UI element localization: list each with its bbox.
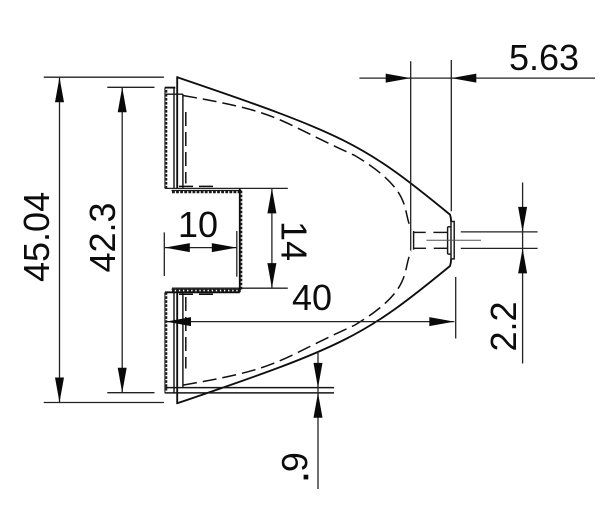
dim 5.63 extension line left [410,61,412,250]
dim 40 line [166,321,454,323]
hidden bore dashed vertical upper [185,112,187,184]
svg-text:5.63: 5.63 [509,37,579,78]
dim 10 extension line left [163,232,165,276]
tip flange vertical [447,227,449,254]
dim 40 extension line right [455,277,457,339]
inner wall bottom horizontal + extension for .6 dim [166,387,335,389]
dim 42.3 extension line top [107,86,154,88]
svg-text:2.2: 2.2 [483,301,524,351]
shoulder lip top edge [165,87,176,89]
dim 45.04 extension line bottom [44,402,164,404]
shoulder lip inner vertical lower [173,292,175,393]
shoulder lip left face lower (double line) [164,292,166,393]
dim 42.3 extension line bottom [107,392,154,394]
svg-text:42.3: 42.3 [82,202,123,272]
nose cone outer profile bottom curve [177,259,451,403]
svg-text:45.04: 45.04 [16,192,57,282]
dim 45.04 line [59,77,61,402]
slot top edge line outer [165,187,288,189]
dim 45.04 extension line top [44,76,164,78]
slot bottom edge line outer [165,291,240,293]
shoulder lip inner vertical upper [173,88,175,189]
svg-text:40: 40 [292,277,332,318]
slot top edge inner double [172,190,242,192]
dim 5.63 line [359,77,595,79]
dim 2.2 extension lines [461,231,538,233]
inner wall top horizontal [166,93,184,95]
base face upper segment [176,76,178,188]
nose cone outer profile top curve [177,77,451,221]
svg-text:14: 14 [274,221,315,261]
dim .6 line [317,353,319,489]
tip centerline [427,239,482,241]
slot right wall vertical [239,188,241,292]
slot right wall inner vertical [240,191,242,290]
hidden bore dashed vertical lower [185,297,187,369]
shoulder lip bottom edge + extension for .6 dim [165,392,334,394]
inner bore solid vertical upper [182,94,184,188]
dim 42.3 line [121,87,123,392]
svg-text:10: 10 [178,204,218,245]
dim 5.63 extension line right [450,60,452,211]
tip cap rectangle [451,222,454,259]
dim 14 line [271,188,273,288]
slot bottom hidden dashed [179,293,218,295]
dim 10 extension line right [236,231,238,277]
slot bottom edge inner double [172,290,241,292]
dim 2.2 line [522,183,524,364]
dim 10 line [165,247,237,249]
base face lower segment [176,292,178,404]
svg-text:6: 6 [274,452,315,472]
tip channel walls [414,231,426,233]
slot top hidden dashed [179,185,218,187]
tip flange caps [448,226,451,228]
tip internal face [413,231,415,250]
hidden inner surface dashed curve bottom [183,251,412,385]
inner bore solid vertical lower [182,292,184,387]
shoulder lip left face upper (double line) [164,88,166,189]
hidden inner surface dashed curve top [183,96,412,230]
